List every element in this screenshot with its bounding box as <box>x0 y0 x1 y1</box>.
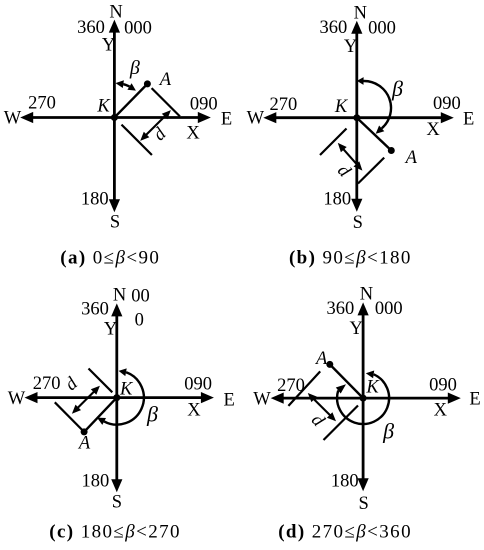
svg-text:360: 360 <box>81 300 109 320</box>
svg-text:A: A <box>314 349 328 369</box>
svg-text:360: 360 <box>320 18 348 38</box>
svg-text:E: E <box>224 390 235 410</box>
panel (a) bearing angle arc beta <box>123 84 129 86</box>
svg-text:K: K <box>365 377 380 397</box>
panel (b) south arrowhead <box>351 199 362 212</box>
svg-text:090: 090 <box>433 94 461 114</box>
svg-text:β: β <box>129 57 140 79</box>
panel (a) point A <box>144 80 151 87</box>
svg-text:K: K <box>96 97 111 117</box>
panel (c) bearing angle arc beta <box>104 372 144 424</box>
svg-text:X: X <box>186 124 200 144</box>
svg-text:270: 270 <box>28 94 56 114</box>
svg-text:000: 000 <box>375 299 403 319</box>
svg-text:E: E <box>463 109 474 129</box>
svg-text:(d) 270≤β<360: (d) 270≤β<360 <box>278 522 412 543</box>
svg-text:270: 270 <box>33 374 61 394</box>
panel (b) line K to A <box>357 118 392 151</box>
svg-text:W: W <box>253 390 271 410</box>
panel (c) distance arrow d <box>77 391 95 409</box>
panel (c) line K to A <box>84 398 117 432</box>
svg-text:090: 090 <box>429 375 457 395</box>
panel (c) east arrowhead <box>201 392 214 403</box>
svg-text:S: S <box>112 493 122 513</box>
panel (a) north arrowhead <box>109 20 120 33</box>
panel (b) east-west axis <box>274 116 443 119</box>
svg-text:(a) 0≤β<90: (a) 0≤β<90 <box>60 248 160 269</box>
panel (d) tick through K <box>324 406 359 441</box>
panel (a) east arrowhead <box>198 112 211 123</box>
panel (a) point K <box>111 114 118 121</box>
svg-text:W: W <box>247 109 265 129</box>
svg-text:A: A <box>158 70 172 90</box>
svg-text:β: β <box>382 419 394 444</box>
svg-text:Y: Y <box>102 36 115 56</box>
svg-text:S: S <box>358 494 368 514</box>
svg-text:180: 180 <box>81 190 109 210</box>
svg-text:A: A <box>404 148 418 168</box>
svg-text:K: K <box>119 379 134 399</box>
panel (b) west arrowhead <box>263 112 276 123</box>
svg-text:N: N <box>113 285 126 305</box>
panel (b) bearing angle arc beta <box>364 81 392 128</box>
panel (c) tick through K <box>89 369 113 393</box>
svg-text:β: β <box>146 401 158 426</box>
svg-text:Y: Y <box>350 319 363 339</box>
panel (c) point K <box>113 394 120 401</box>
panel (d) line K to A <box>330 364 363 398</box>
panel (a) south arrowhead <box>109 199 120 212</box>
panel (c) east-west axis <box>36 396 203 399</box>
panel (d) south arrowhead <box>358 478 369 491</box>
svg-text:K: K <box>334 97 349 117</box>
svg-text:E: E <box>221 110 232 130</box>
panel (b) point K <box>353 114 360 121</box>
svg-text:Y: Y <box>104 319 117 339</box>
panel (d) west arrowhead <box>271 393 284 404</box>
panel (d) distance arrow d <box>313 398 331 416</box>
panel (b) east arrowhead <box>441 112 454 123</box>
panel (d) bearing angle arc beta <box>337 374 389 424</box>
svg-text:360: 360 <box>327 299 355 319</box>
svg-text:180: 180 <box>323 190 351 210</box>
svg-text:090: 090 <box>184 375 212 395</box>
panel (a) east-west axis <box>31 116 200 119</box>
svg-text:d: d <box>307 410 329 431</box>
panel (c) south arrowhead <box>111 479 122 492</box>
panel (d) north axis <box>362 313 365 480</box>
panel (b) distance arrow d <box>342 148 357 165</box>
panel (a) line K to A <box>114 84 147 118</box>
svg-text:180: 180 <box>331 472 359 492</box>
svg-text:Y: Y <box>344 37 357 57</box>
svg-text:S: S <box>353 213 363 233</box>
svg-text:00: 00 <box>131 287 150 307</box>
svg-text:000: 000 <box>124 19 152 39</box>
panel (d) north arrowhead <box>358 302 369 315</box>
svg-text:S: S <box>110 212 120 232</box>
panel (c) north axis <box>115 314 118 481</box>
svg-text:N: N <box>360 284 373 304</box>
panel (c) tick through A <box>55 402 84 432</box>
panel (a) north axis <box>113 31 116 202</box>
panel (a) distance arrow d <box>145 115 166 136</box>
svg-text:β: β <box>391 76 403 101</box>
panel (a) west arrowhead <box>20 112 33 123</box>
panel (b) north arrowhead <box>351 21 362 34</box>
svg-text:N: N <box>109 3 122 23</box>
svg-text:270: 270 <box>270 95 298 115</box>
svg-text:d: d <box>61 373 82 395</box>
svg-text:0: 0 <box>135 310 144 330</box>
svg-text:W: W <box>8 389 26 409</box>
svg-text:(c) 180≤β<270: (c) 180≤β<270 <box>49 522 181 543</box>
svg-text:(b) 90≤β<180: (b) 90≤β<180 <box>289 248 412 269</box>
svg-text:180: 180 <box>82 471 110 491</box>
svg-text:090: 090 <box>190 95 218 115</box>
panel (d) east arrowhead <box>448 393 461 404</box>
panel (a) tick through A <box>152 88 180 116</box>
panel (c) point A <box>81 428 88 435</box>
svg-text:W: W <box>4 108 22 128</box>
panel (a) tick through K <box>122 125 152 155</box>
svg-text:N: N <box>354 3 367 23</box>
panel (d) point K <box>360 395 367 402</box>
svg-text:E: E <box>469 390 480 410</box>
panel (d) tick through A <box>288 371 320 406</box>
panel (b) tick through K <box>320 129 347 156</box>
svg-text:X: X <box>187 401 201 421</box>
svg-text:d: d <box>333 161 355 182</box>
panel (b) north axis <box>355 32 358 201</box>
svg-text:X: X <box>426 120 440 140</box>
panel (c) north arrowhead <box>111 303 122 316</box>
panel (d) point A <box>326 361 333 368</box>
svg-text:A: A <box>77 433 91 453</box>
panel (b) tick through A <box>358 158 384 184</box>
panel (d) east-west axis <box>282 397 450 400</box>
svg-text:X: X <box>434 401 448 421</box>
panel (c) west arrowhead <box>25 392 38 403</box>
svg-text:d: d <box>150 124 171 145</box>
panel (b) point A <box>388 147 395 154</box>
svg-text:000: 000 <box>368 19 396 39</box>
svg-text:360: 360 <box>77 18 105 38</box>
